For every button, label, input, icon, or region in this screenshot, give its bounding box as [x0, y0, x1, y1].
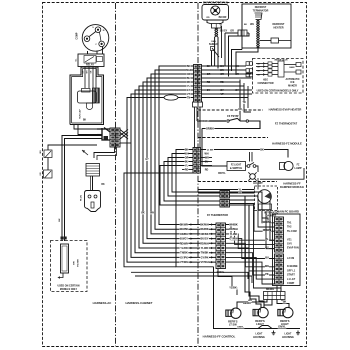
svg-text:OR: OR — [238, 109, 242, 111]
svg-text:RD: RD — [187, 81, 191, 84]
svg-text:VT/WH: VT/WH — [200, 261, 208, 264]
svg-text:BK: BK — [260, 149, 264, 152]
svg-text:WH/BK: WH/BK — [180, 228, 189, 231]
svg-text:TN/BK: TN/BK — [201, 252, 209, 255]
svg-text:HARNESS-FF CONTROL: HARNESS-FF CONTROL — [203, 335, 236, 339]
svg-text:PK: PK — [265, 273, 269, 276]
svg-text:MAKER: MAKER — [288, 84, 297, 87]
svg-text:EVAPORATOR FAN: EVAPORATOR FAN — [203, 0, 228, 4]
svg-text:YL/BK: YL/BK — [229, 287, 237, 290]
svg-text:BU/GY: BU/GY — [220, 30, 228, 33]
svg-text:RD/WH: RD/WH — [180, 242, 189, 245]
svg-text:WH: WH — [185, 153, 189, 156]
svg-text:RELAY: RELAY — [86, 63, 94, 66]
svg-text:GN/YL: GN/YL — [237, 327, 244, 329]
svg-text:HEATER: HEATER — [273, 26, 283, 29]
svg-text:WATER VALVE: WATER VALVE — [274, 59, 288, 62]
svg-text:BU/GY: BU/GY — [201, 238, 209, 241]
svg-text:RD/WH: RD/WH — [201, 121, 209, 123]
svg-text:BK: BK — [83, 120, 87, 122]
svg-text:TH2: TH2 — [287, 226, 292, 229]
svg-text:LT SW: LT SW — [229, 323, 237, 327]
svg-text:OR: OR — [230, 30, 234, 33]
svg-text:BK/WH: BK/WH — [243, 303, 251, 305]
svg-text:HARNESS-FF: HARNESS-FF — [283, 182, 301, 186]
svg-text:LAMP: LAMP — [294, 167, 301, 170]
svg-text:RD: RD — [205, 169, 209, 172]
svg-text:TN/BK: TN/BK — [180, 252, 188, 255]
svg-text:GY: GY — [187, 89, 191, 92]
svg-text:TH1: TH1 — [287, 222, 292, 225]
svg-text:BK: BK — [101, 184, 105, 186]
svg-text:WH/BK: WH/BK — [200, 228, 209, 231]
svg-text:BU: BU — [187, 77, 191, 80]
svg-text:OR: OR — [187, 73, 191, 76]
svg-text:GY/PK: GY/PK — [201, 256, 209, 259]
svg-text:BK: BK — [283, 301, 287, 304]
svg-text:HOUSING: HOUSING — [253, 336, 265, 339]
svg-text:FF THERMISTOR: FF THERMISTOR — [207, 213, 228, 217]
svg-text:BU: BU — [265, 257, 269, 260]
svg-text:TH-COM: TH-COM — [287, 230, 297, 233]
svg-text:WH: WH — [265, 265, 269, 268]
svg-text:BK/OR: BK/OR — [219, 16, 227, 19]
svg-text:PLUG: PLUG — [81, 195, 83, 201]
svg-text:RAKE: RAKE — [289, 66, 295, 69]
svg-text:OR/BK: OR/BK — [206, 128, 214, 131]
svg-text:USED ON CERTAIN MODELS ONLY: USED ON CERTAIN MODELS ONLY — [257, 90, 299, 93]
svg-text:YE1: YE1 — [287, 238, 292, 241]
svg-text:WH: WH — [150, 213, 154, 215]
svg-text:EVAP FAN: EVAP FAN — [287, 247, 299, 250]
svg-text:BK/WH: BK/WH — [200, 224, 209, 227]
svg-text:OR: OR — [185, 157, 189, 160]
svg-text:BK: BK — [185, 149, 189, 152]
svg-text:WH/BK: WH/BK — [229, 224, 238, 227]
svg-text:WH: WH — [40, 150, 42, 154]
svg-text:BU/GY: BU/GY — [180, 238, 188, 241]
svg-text:WH: WH — [250, 24, 254, 26]
svg-text:HARNESS-FZ MODULE: HARNESS-FZ MODULE — [272, 142, 302, 146]
svg-text:RD/WH: RD/WH — [229, 228, 238, 231]
svg-text:L1 BK: L1 BK — [207, 150, 214, 152]
svg-text:COMP: COMP — [287, 282, 295, 285]
svg-text:GY0: GY0 — [287, 243, 292, 246]
svg-text:MODELS ONLY: MODELS ONLY — [60, 288, 78, 291]
svg-text:BU: BU — [205, 161, 209, 164]
svg-text:OR/BK: OR/BK — [180, 233, 188, 236]
svg-text:YL/BK: YL/BK — [230, 233, 238, 236]
svg-text:GN/YL: GN/YL — [278, 326, 286, 329]
svg-text:SHIELD: SHIELD — [209, 43, 218, 46]
svg-text:HARNESS-CABINET: HARNESS-CABINET — [125, 301, 152, 305]
svg-text:HOUSING: HOUSING — [282, 336, 294, 339]
svg-text:L1 LGT: L1 LGT — [287, 278, 296, 281]
svg-text:WH: WH — [248, 300, 252, 302]
svg-text:HARNESS-AC: HARNESS-AC — [93, 301, 112, 305]
svg-text:GY/PK: GY/PK — [180, 256, 188, 259]
svg-text:CONNECTOR: CONNECTOR — [257, 82, 273, 85]
svg-text:RFI: RFI — [74, 261, 76, 265]
svg-text:L3 CM: L3 CM — [287, 257, 294, 260]
svg-text:& SWITCH: & SWITCH — [230, 167, 243, 170]
svg-text:TN: TN — [242, 102, 245, 104]
svg-text:YL: YL — [187, 85, 191, 88]
svg-text:YL/RD: YL/RD — [180, 247, 188, 250]
svg-text:OFF L1: OFF L1 — [287, 269, 296, 272]
svg-text:MAIN PC BOARD: MAIN PC BOARD — [277, 210, 299, 214]
svg-text:RD/WH: RD/WH — [200, 242, 209, 245]
svg-text:BR: BR — [238, 193, 242, 195]
svg-text:RD: RD — [185, 169, 189, 172]
svg-text:YL: YL — [185, 165, 189, 168]
svg-text:YL/RD: YL/RD — [201, 247, 209, 250]
svg-text:FILTER: FILTER — [78, 259, 80, 267]
svg-text:WH: WH — [187, 69, 191, 72]
svg-text:RUN CAP: RUN CAP — [79, 109, 82, 119]
svg-text:D-SENSE: D-SENSE — [287, 265, 298, 268]
svg-text:DAMPER MODULE: DAMPER MODULE — [280, 185, 304, 189]
svg-text:FZ THERMOSTAT: FZ THERMOSTAT — [275, 122, 298, 126]
svg-text:BK: BK — [141, 213, 145, 215]
svg-text:GY/WH: GY/WH — [229, 238, 238, 241]
svg-text:BU: BU — [185, 161, 189, 164]
svg-text:OR/BK: OR/BK — [200, 233, 208, 236]
svg-text:VT/WH: VT/WH — [180, 261, 188, 264]
svg-text:BR/YL: BR/YL — [218, 172, 226, 175]
svg-text:TN: TN — [187, 97, 190, 100]
svg-text:FZ TSTAT: FZ TSTAT — [227, 115, 239, 118]
svg-text:COMP: COMP — [77, 32, 79, 39]
svg-text:BK: BK — [59, 218, 61, 222]
svg-text:BK/WH: BK/WH — [180, 224, 189, 227]
svg-text:TERMINATOR: TERMINATOR — [253, 9, 269, 12]
svg-text:BK: BK — [187, 65, 191, 68]
svg-text:WH: WH — [205, 157, 209, 160]
svg-text:HARNESS-EVAP HEATER: HARNESS-EVAP HEATER — [269, 108, 302, 112]
svg-text:START: START — [287, 274, 295, 277]
svg-text:RD: RD — [206, 17, 210, 19]
svg-text:GY: GY — [145, 159, 149, 161]
svg-text:WH: WH — [205, 153, 209, 156]
